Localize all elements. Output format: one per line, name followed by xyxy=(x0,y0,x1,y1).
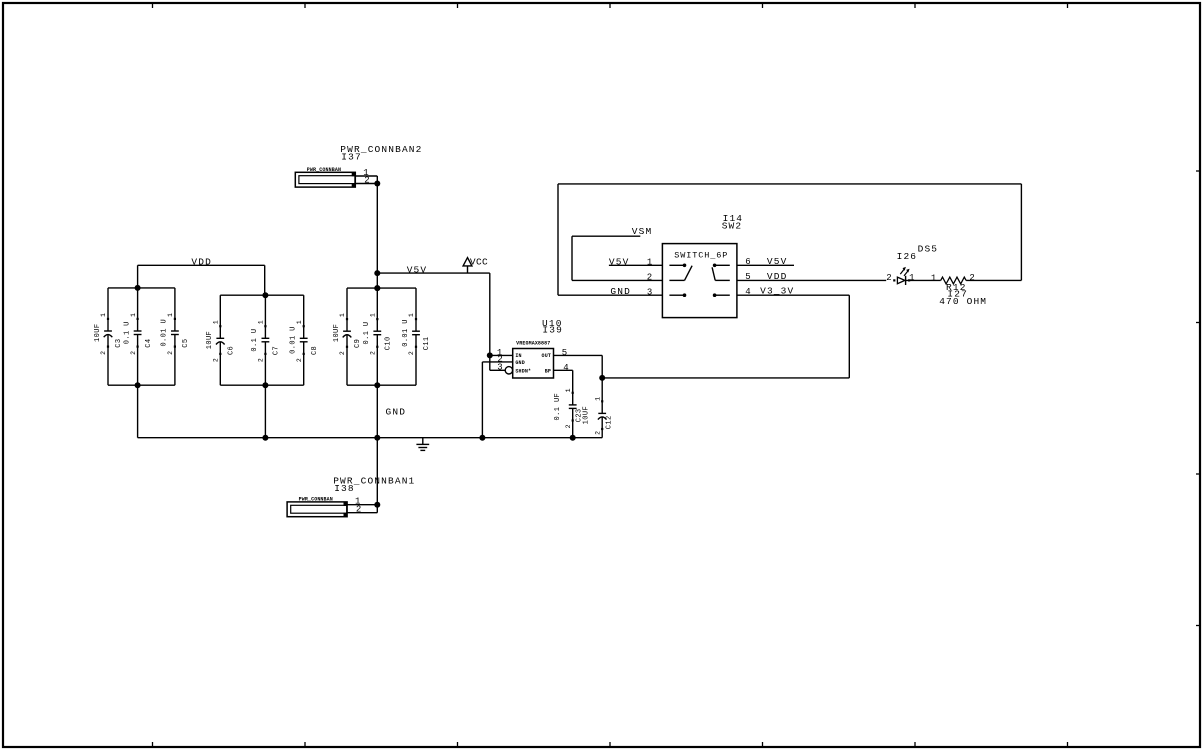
capacitor C12 (10UF) xyxy=(601,378,603,414)
wire group1 bottom rail xyxy=(108,384,175,386)
svg-text:0.1 U: 0.1 U xyxy=(363,321,371,344)
capacitor C4 (0.1 U) xyxy=(137,288,139,331)
svg-text:2: 2 xyxy=(370,351,377,355)
junction group2 bottom xyxy=(262,382,268,388)
junction U10 GND at rail xyxy=(479,435,485,441)
wire VDD rail xyxy=(138,264,265,266)
switch pole stub pin2 (internal) xyxy=(669,279,684,281)
wire U10 IN pin xyxy=(490,354,513,356)
svg-text:SW2: SW2 xyxy=(722,221,743,232)
switch contact dot pin4 xyxy=(713,293,717,297)
svg-text:3: 3 xyxy=(647,287,652,297)
svg-text:1: 1 xyxy=(565,388,572,392)
svg-text:BP: BP xyxy=(545,368,551,374)
switch pole stub pin1 (internal) xyxy=(669,264,684,266)
capacitor C6 (10UF) xyxy=(219,295,221,338)
wire U10 SHDN pin xyxy=(490,369,505,371)
svg-text:C6: C6 xyxy=(228,346,236,355)
svg-text:0.01 U: 0.01 U xyxy=(161,319,169,347)
capacitor C3 (10UF) xyxy=(107,288,109,331)
svg-text:2: 2 xyxy=(594,431,601,435)
wire group2 drop to GND rail xyxy=(264,385,266,438)
junction group1 bottom xyxy=(135,382,141,388)
svg-text:C5: C5 xyxy=(182,339,190,348)
wire group3 top from V5V node xyxy=(376,273,378,288)
switch contact dot pin1 xyxy=(683,264,687,268)
wire V5V to switch pin 1 xyxy=(609,264,663,266)
wire PWR_CONNBAN1 pin 1 xyxy=(347,504,377,506)
svg-text:1: 1 xyxy=(213,320,220,324)
junction GND rail / group3 xyxy=(374,435,380,441)
svg-text:0.1 UF: 0.1 UF xyxy=(554,393,562,421)
svg-text:4: 4 xyxy=(563,363,568,373)
svg-text:C11: C11 xyxy=(423,336,431,350)
switch lever left (pin2 to pin1) xyxy=(685,266,693,281)
junction group1 top xyxy=(135,285,141,291)
svg-text:2: 2 xyxy=(100,351,107,355)
wire group3 top rail xyxy=(347,287,416,289)
wire U10 OUT drop xyxy=(601,355,603,378)
junction group3 top xyxy=(374,285,380,291)
svg-text:470 OHM: 470 OHM xyxy=(939,296,987,307)
svg-text:0.01 U: 0.01 U xyxy=(290,326,298,354)
wire VDD rail left drop xyxy=(137,265,139,288)
svg-text:C10: C10 xyxy=(385,336,393,350)
svg-text:1: 1 xyxy=(647,258,652,268)
resistor R12 (I27) 470 OHM xyxy=(941,277,966,284)
svg-text:1: 1 xyxy=(909,273,914,283)
svg-text:2: 2 xyxy=(130,351,137,355)
svg-text:I37: I37 xyxy=(341,152,362,163)
capacitor C9 (10UF) xyxy=(346,288,348,331)
wire group1 drop to GND rail xyxy=(137,385,139,438)
junction node V3_3V at U10 OUT xyxy=(599,375,605,381)
wire U10 GND pin xyxy=(482,361,512,363)
wire pin1-pin2 tie xyxy=(376,176,378,184)
wire V5V horizontal xyxy=(377,272,490,274)
switch pole stub pin3 (internal) xyxy=(669,294,684,296)
wire loop left vertical xyxy=(557,184,559,295)
wire V5V vertical from PWR_CONNBAN2 down xyxy=(376,184,378,274)
wire group3 bottom rail xyxy=(347,384,416,386)
svg-text:VREGMAX8887: VREGMAX8887 xyxy=(516,341,550,347)
wire U10 SHDN tie vertical xyxy=(489,355,491,370)
svg-text:C12: C12 xyxy=(606,415,614,429)
wire group2 top rail xyxy=(220,294,303,296)
svg-text:1: 1 xyxy=(370,313,377,317)
junction at PWR_CONNBAN2 pins xyxy=(374,181,380,187)
wire tie pin1-pin2 PWR_CONNBAN1 xyxy=(376,505,378,513)
svg-text:C3: C3 xyxy=(115,339,123,348)
capacitor C8 (0.01 U) xyxy=(303,295,305,338)
svg-text:C8: C8 xyxy=(311,346,319,355)
wire R12 to loop right vertical xyxy=(966,279,1021,281)
ground symbol xyxy=(422,438,424,445)
svg-text:C7: C7 xyxy=(273,346,281,355)
wire GND drop to PWR_CONNBAN1 xyxy=(376,438,378,505)
wire VSM to switch pin 2 xyxy=(572,279,662,281)
op-amp U10 voltage regulator VREGMAX8887 (I39) xyxy=(513,349,554,379)
svg-text:0.1 U: 0.1 U xyxy=(251,329,259,352)
junction GND rail / group2 xyxy=(262,435,268,441)
svg-text:2: 2 xyxy=(408,351,415,355)
wire V3_3V to switch pin 4 xyxy=(737,294,849,296)
svg-text:2: 2 xyxy=(167,351,174,355)
svg-text:1: 1 xyxy=(100,313,107,317)
wire U10 BP pin xyxy=(554,369,573,371)
power symbol VCC xyxy=(467,266,469,273)
junction group3 bottom xyxy=(374,382,380,388)
wire VDD from switch pin 5 to LED xyxy=(737,279,886,281)
wire PWR_CONNBAN1 pin 2 xyxy=(347,512,377,514)
svg-text:SHDN*: SHDN* xyxy=(515,368,531,374)
wire PWR_CONNBAN2 pin 1 xyxy=(355,175,377,177)
wire U10 GND drop xyxy=(481,362,483,438)
switch SW2 SWITCH_6P (I14) body xyxy=(662,244,737,318)
wire V3_3V horizontal from U10 OUT xyxy=(602,377,849,379)
svg-text:2: 2 xyxy=(296,358,303,362)
junction U10 IN / SHDN tie xyxy=(487,352,493,358)
junction group3 at V5V column top xyxy=(374,285,380,291)
svg-text:2: 2 xyxy=(647,273,652,283)
wire V5V stub at switch pin 6 xyxy=(737,264,794,266)
svg-text:10UF: 10UF xyxy=(206,331,214,349)
wire VSM drop to pin 2 xyxy=(571,236,573,280)
capacitor C11 (0.01 U) xyxy=(415,288,417,331)
switch throw stub pin4 (internal) xyxy=(715,294,730,296)
wire VDD rail right drop xyxy=(264,265,266,295)
switch lever right (pin5 to pin6) xyxy=(712,267,715,280)
svg-text:5: 5 xyxy=(562,348,567,358)
wire V3_3V vertical rise xyxy=(848,295,850,378)
svg-text:1: 1 xyxy=(594,397,601,401)
svg-text:1: 1 xyxy=(931,273,936,283)
svg-text:2: 2 xyxy=(565,424,572,428)
svg-text:I39: I39 xyxy=(542,324,563,335)
svg-text:0.1 U: 0.1 U xyxy=(123,321,131,344)
wire PWR_CONNBAN2 pin 2 xyxy=(355,183,377,185)
junction C23 at GND rail xyxy=(570,435,576,441)
wire LED cathode to R12 xyxy=(906,279,941,281)
wire loop top horizontal xyxy=(558,183,1021,185)
svg-text:VCC: VCC xyxy=(470,257,488,268)
svg-text:1: 1 xyxy=(339,313,346,317)
svg-text:1: 1 xyxy=(130,313,137,317)
wire group3 drop to GND rail xyxy=(376,385,378,438)
wire group2 bottom rail xyxy=(220,384,303,386)
svg-text:2: 2 xyxy=(213,358,220,362)
svg-text:1: 1 xyxy=(167,313,174,317)
junction at PWR_CONNBAN1 pins xyxy=(374,502,380,508)
wire GND to switch pin 3 xyxy=(558,294,662,296)
junction node V5V xyxy=(374,270,380,276)
capacitor C7 (0.1 U) xyxy=(264,295,266,338)
svg-text:SWITCH_6P: SWITCH_6P xyxy=(674,251,728,261)
svg-text:IN: IN xyxy=(515,353,521,359)
svg-text:2: 2 xyxy=(886,273,891,283)
junction group2 top xyxy=(262,292,268,298)
wire group1 top rail xyxy=(108,287,175,289)
wire GND rail xyxy=(138,437,603,439)
svg-text:0.01 U: 0.01 U xyxy=(402,319,410,347)
svg-text:I38: I38 xyxy=(334,483,355,494)
svg-text:V3_3V: V3_3V xyxy=(760,286,794,297)
svg-text:10UF: 10UF xyxy=(94,324,102,342)
svg-text:DS5: DS5 xyxy=(918,244,939,255)
capacitor C23 (0.1 UF) xyxy=(572,370,574,405)
svg-text:C4: C4 xyxy=(145,339,153,348)
svg-text:10UF: 10UF xyxy=(333,324,341,342)
svg-text:GND: GND xyxy=(386,407,407,418)
svg-text:1: 1 xyxy=(408,313,415,317)
svg-text:2: 2 xyxy=(258,358,265,362)
switch contact dot pin3 xyxy=(683,293,687,297)
svg-text:1: 1 xyxy=(296,320,303,324)
svg-text:OUT: OUT xyxy=(542,353,551,359)
svg-text:2: 2 xyxy=(969,273,974,283)
capacitor C5 (0.01 U) xyxy=(174,288,176,331)
wire loop right vertical xyxy=(1020,184,1022,281)
svg-text:4: 4 xyxy=(745,287,750,297)
capacitor C10 (0.1 U) xyxy=(376,288,378,331)
switch throw stub pin5 (internal) xyxy=(715,279,730,281)
svg-text:I26: I26 xyxy=(897,251,918,262)
svg-text:C9: C9 xyxy=(354,339,362,348)
svg-text:1: 1 xyxy=(258,320,265,324)
svg-text:10UF: 10UF xyxy=(582,406,590,424)
svg-text:GND: GND xyxy=(515,360,524,366)
wire U10 OUT pin xyxy=(554,354,603,356)
wire VSM stub xyxy=(572,235,640,237)
switch throw stub pin6 (internal) xyxy=(715,264,730,266)
svg-text:3: 3 xyxy=(497,363,502,373)
switch contact dot pin6 xyxy=(713,264,717,268)
wire from V5V corner down to U10 IN xyxy=(489,273,491,355)
svg-text:2: 2 xyxy=(339,351,346,355)
